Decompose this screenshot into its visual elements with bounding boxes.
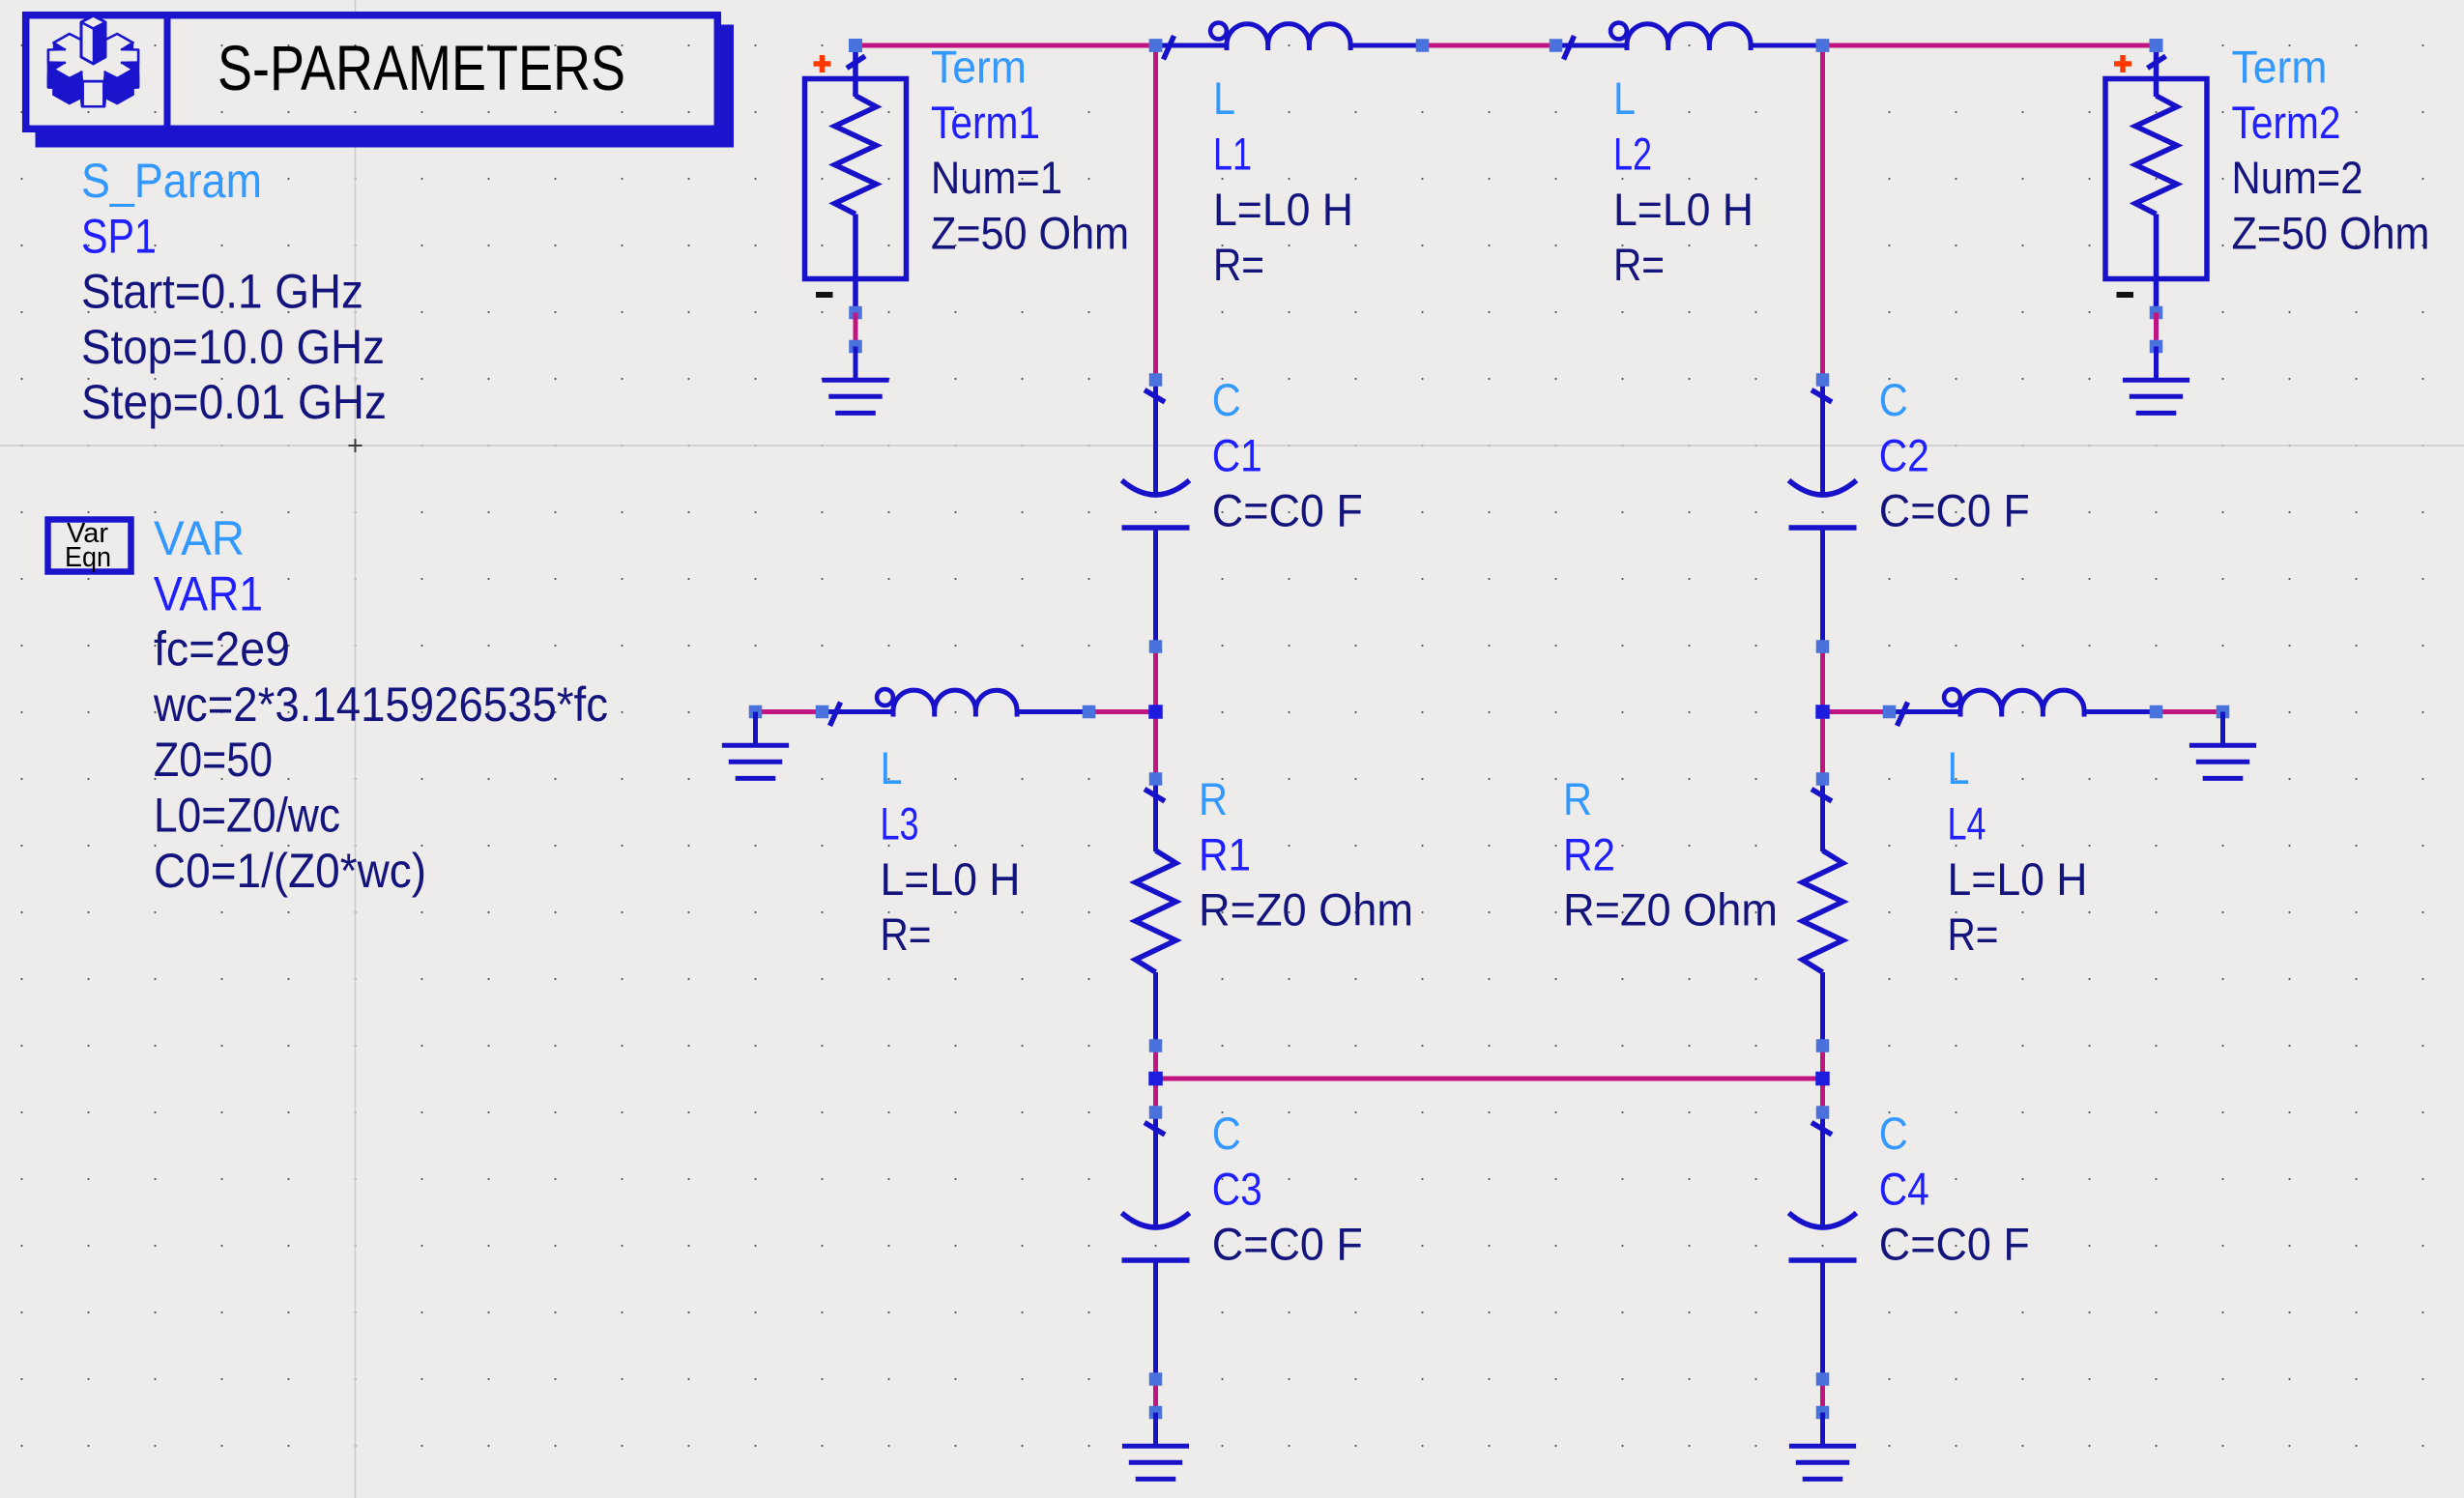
wire Term2 to ground <box>2154 313 2159 347</box>
svg-text:Term: Term <box>931 42 1027 93</box>
wire L2 to Term2 <box>1823 43 2157 48</box>
capacitor C4 <box>1789 1106 1857 1386</box>
wire L3 to node B <box>1089 709 1156 714</box>
svg-text:L=L0 H: L=L0 H <box>881 853 1021 905</box>
svg-text:S-PARAMETERS: S-PARAMETERS <box>217 32 625 103</box>
wire node A down to C1 <box>1153 45 1158 380</box>
svg-text:R=: R= <box>1613 239 1665 290</box>
svg-text:L=L0 H: L=L0 H <box>1613 184 1754 235</box>
labels R1 <box>1199 773 1413 936</box>
ground under Term2 <box>2123 340 2189 414</box>
svg-text:L3: L3 <box>881 798 919 850</box>
port Term1 <box>805 39 907 319</box>
labels L4 <box>1948 742 2088 960</box>
labels R2 <box>1563 773 1778 936</box>
labels L1 <box>1213 72 1353 290</box>
svg-text:R: R <box>1199 773 1228 824</box>
svg-text:C1: C1 <box>1212 429 1262 480</box>
wire C2 to node E <box>1820 645 1825 712</box>
svg-text:R2: R2 <box>1563 828 1615 879</box>
wire C1 to node B <box>1153 645 1158 712</box>
wire node E to R2 <box>1820 712 1825 780</box>
labels C1 <box>1212 374 1363 536</box>
svg-text:S_Param: S_Param <box>81 154 262 208</box>
svg-text:C0=1/(Z0*wc): C0=1/(Z0*wc) <box>154 844 426 898</box>
labels Term2 <box>2232 42 2430 259</box>
ground left of L3 <box>722 706 789 779</box>
svg-text:VAR1: VAR1 <box>154 566 263 620</box>
ground under Term1 <box>822 340 888 414</box>
labels C2 <box>1879 374 2030 536</box>
svg-text:L0=Z0/wc: L0=Z0/wc <box>154 789 340 843</box>
svg-text:L: L <box>881 742 903 793</box>
svg-text:Z=50 Ohm: Z=50 Ohm <box>2232 207 2430 258</box>
svg-text:Num=1: Num=1 <box>931 152 1062 203</box>
svg-text:L: L <box>1948 742 1970 793</box>
svg-text:R1: R1 <box>1199 828 1251 879</box>
capacitor C2 <box>1789 373 1857 653</box>
svg-text:R: R <box>1563 773 1592 824</box>
VAR equation box icon <box>48 518 131 573</box>
wire L1 to L2 <box>1423 43 1556 48</box>
ground right of L4 <box>2189 706 2256 779</box>
capacitor C3 <box>1122 1106 1190 1386</box>
wire R1 to node C to C3 <box>1153 1046 1158 1112</box>
svg-text:Term: Term <box>2232 42 2328 93</box>
wire C3 to ground <box>1153 1379 1158 1413</box>
svg-text:C3: C3 <box>1212 1163 1262 1214</box>
labels L3 <box>881 742 1021 960</box>
labels C4 <box>1879 1108 2030 1270</box>
svg-text:VAR: VAR <box>154 511 245 565</box>
junction node B <box>1148 705 1163 719</box>
origin cross marker <box>349 439 362 452</box>
wire Term1 to node A <box>855 43 1156 48</box>
svg-text:L: L <box>1213 72 1235 124</box>
labels C3 <box>1212 1108 1363 1270</box>
svg-text:Z=50 Ohm: Z=50 Ohm <box>931 207 1129 258</box>
svg-text:SP1: SP1 <box>81 209 157 263</box>
inductor L3 <box>816 689 1096 726</box>
svg-text:C=C0 F: C=C0 F <box>1879 485 2030 536</box>
port Term2 <box>2105 39 2207 319</box>
svg-text:L=L0 H: L=L0 H <box>1213 184 1353 235</box>
wire node D down to C2 <box>1820 45 1825 380</box>
svg-text:Z0=50: Z0=50 <box>154 733 273 787</box>
svg-text:C=C0 F: C=C0 F <box>1879 1219 2030 1270</box>
ground under C4 <box>1789 1406 1856 1480</box>
svg-text:Eqn: Eqn <box>65 542 111 573</box>
svg-text:R=: R= <box>1213 239 1264 290</box>
svg-text:L4: L4 <box>1948 798 1986 850</box>
resistor R2 <box>1803 772 1843 1052</box>
svg-text:C: C <box>1212 374 1241 425</box>
title text S-PARAMETERS <box>217 32 625 103</box>
svg-text:Num=2: Num=2 <box>2232 152 2363 203</box>
svg-text:C: C <box>1212 1108 1241 1159</box>
wire node B to R1 <box>1153 712 1158 780</box>
wire Term1 to ground <box>854 313 858 347</box>
svg-text:Start=0.1 GHz: Start=0.1 GHz <box>81 265 363 319</box>
labels Term1 <box>931 42 1129 259</box>
svg-text:R=Z0 Ohm: R=Z0 Ohm <box>1563 884 1778 936</box>
resistor R1 <box>1136 772 1176 1052</box>
S-PARAMETERS title block <box>26 12 734 148</box>
svg-text:Step=0.01 GHz: Step=0.01 GHz <box>81 375 387 429</box>
inductor L1 <box>1149 23 1430 60</box>
svg-text:R=: R= <box>1948 908 1999 960</box>
svg-text:C: C <box>1879 1108 1908 1159</box>
labels variable block VAR1 <box>153 511 608 898</box>
svg-text:C=C0 F: C=C0 F <box>1212 485 1363 536</box>
svg-text:Stop=10.0 GHz: Stop=10.0 GHz <box>81 320 385 374</box>
junction node D <box>1816 39 1830 52</box>
ground under C3 <box>1122 1406 1189 1480</box>
wire L4 to right stub <box>2157 709 2223 714</box>
svg-text:wc=2*3.1415926535*fc: wc=2*3.1415926535*fc <box>153 677 608 732</box>
svg-text:R=Z0 Ohm: R=Z0 Ohm <box>1199 884 1413 936</box>
junction node C <box>1148 1072 1163 1086</box>
svg-text:C4: C4 <box>1879 1163 1929 1214</box>
svg-text:Term2: Term2 <box>2232 97 2341 148</box>
svg-text:L2: L2 <box>1613 129 1652 180</box>
svg-text:R=: R= <box>881 908 932 960</box>
labels S-parameter controller SP1 <box>81 154 387 429</box>
junction node E <box>1815 705 1830 719</box>
svg-text:Term1: Term1 <box>931 97 1040 148</box>
svg-text:fc=2e9: fc=2e9 <box>154 622 290 677</box>
svg-text:L1: L1 <box>1213 129 1252 180</box>
capacitor C1 <box>1122 373 1190 653</box>
inductor L2 <box>1550 23 1830 60</box>
svg-text:C=C0 F: C=C0 F <box>1212 1219 1363 1270</box>
gear icon <box>48 16 138 107</box>
svg-text:C2: C2 <box>1879 429 1929 480</box>
junction node F <box>1815 1072 1830 1086</box>
junction node A <box>1149 39 1163 52</box>
wire node C to node F <box>1156 1077 1823 1081</box>
wire node E to L4 <box>1823 709 1890 714</box>
wire R2 to node F to C4 <box>1820 1046 1825 1112</box>
svg-text:L: L <box>1613 72 1636 124</box>
labels L2 <box>1613 72 1754 290</box>
inductor L4 <box>1883 689 2163 726</box>
svg-text:L=L0 H: L=L0 H <box>1948 853 2088 905</box>
svg-text:C: C <box>1879 374 1908 425</box>
wire left stub to L3 <box>756 709 823 714</box>
wire C4 to ground <box>1820 1379 1825 1413</box>
